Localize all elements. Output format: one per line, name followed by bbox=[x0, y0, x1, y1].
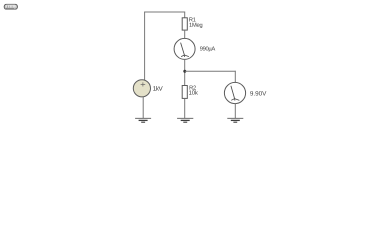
wire ammeter to junction to R2 bbox=[184, 59, 186, 85]
voltmeter pivot legs bbox=[231, 99, 239, 101]
wire R1 to ammeter bbox=[184, 30, 186, 39]
resistor R2 bbox=[182, 86, 187, 99]
label 9.90V bbox=[250, 91, 266, 95]
wire R1 top stub bbox=[184, 12, 186, 18]
resistor R1 bbox=[182, 18, 187, 30]
ammeter U1 bbox=[174, 38, 195, 59]
ground middle bbox=[177, 118, 193, 122]
ground right bbox=[227, 118, 243, 122]
wire R2 to ground bbox=[184, 98, 186, 118]
wire voltmeter to ground bbox=[234, 103, 236, 118]
label R1 bbox=[189, 18, 195, 22]
wire left vertical bbox=[144, 12, 146, 81]
junction node bbox=[183, 70, 186, 73]
wire top horizontal bbox=[144, 11, 185, 13]
label 1Meg bbox=[189, 23, 202, 28]
wire source to ground bbox=[142, 97, 144, 119]
wire junction to voltmeter branch bbox=[185, 70, 236, 72]
voltage source V1 bbox=[133, 80, 150, 97]
label 990uA bbox=[200, 46, 215, 51]
wire voltmeter top stub bbox=[234, 71, 236, 83]
toolbar icon bbox=[4, 4, 17, 9]
label 10k bbox=[189, 90, 198, 94]
label 1kV bbox=[153, 86, 163, 91]
ground left bbox=[135, 118, 151, 122]
label R2 bbox=[190, 86, 196, 90]
plus sign bbox=[141, 82, 146, 86]
voltmeter needle bbox=[231, 86, 235, 99]
ammeter needle bbox=[181, 43, 185, 55]
ammeter pivot legs bbox=[181, 55, 189, 57]
voltmeter U2 bbox=[224, 82, 245, 103]
